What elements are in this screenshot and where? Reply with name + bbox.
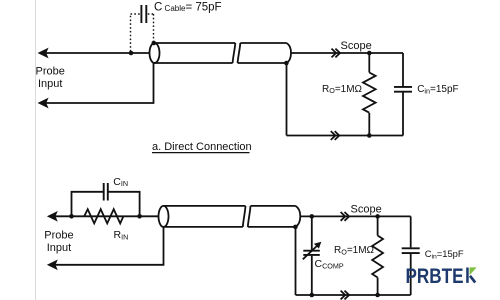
node: dot at cable shield top (C_Cable connection): [152, 41, 157, 46]
capacitor C_in (top circuit): [394, 53, 412, 136]
svg-text:Input: Input: [38, 78, 62, 90]
wire: C_IN branch (left riser, top run, right riser): [72, 192, 140, 217]
svg-text:Probe: Probe: [36, 66, 65, 78]
caption: a. Direct Connection: [152, 141, 252, 153]
wire: dotted lead from C_Cable down to cable shield: [148, 14, 154, 41]
arrowhead of C_COMP adjustment arrow: [314, 242, 321, 249]
variable capacitor C_COMP: [303, 216, 320, 295]
node: dot at R_O bottom (circuit 1): [367, 133, 372, 138]
node: dot at C_COMP top: [310, 214, 315, 219]
node: dot at R_O bottom (circuit 2): [375, 293, 380, 298]
svg-text:PRBTE: PRBTE: [406, 265, 464, 288]
PRBTEK logo: [406, 265, 477, 288]
node: dot at R_O top (circuit 2): [375, 214, 380, 219]
svg-text:a. Direct Connection: a. Direct Connection: [152, 141, 252, 153]
wire: probe return (top circuit) with arrow: [39, 63, 154, 108]
node: dot at cable 2 shield bottom right: [293, 225, 298, 230]
svg-text:Probe: Probe: [44, 229, 73, 241]
wire: scope bottom wire (bottom circuit): [296, 294, 411, 296]
capacitor C_in (bottom circuit): [402, 216, 420, 295]
resistor R_IN: [84, 209, 123, 223]
resistor R_O (bottom circuit): [372, 216, 383, 295]
wire: probe return (bottom circuit) with arrow: [48, 227, 164, 269]
probe input arrow (top circuit, center conductor): [39, 49, 150, 58]
node: dot at cable 1 shield bottom right: [284, 61, 289, 66]
svg-text:Input: Input: [47, 242, 71, 254]
wire: cable 1 shield down to scope ground: [286, 63, 288, 136]
label: Probe Input (top circuit): [36, 66, 65, 91]
figure left border line: [35, 0, 37, 300]
svg-text:Scope: Scope: [341, 40, 372, 52]
node: junction dot on probe wire: [129, 51, 134, 56]
wire: cable 2 shield down to scope ground: [295, 227, 297, 295]
node: dot at R_IN left: [69, 214, 74, 219]
chevron signal marker (top wire, circuit 1): [332, 49, 341, 58]
label: Probe Input (bottom circuit): [44, 229, 73, 254]
node: dot at R_IN right: [137, 214, 142, 219]
capacitor C_Cable: [141, 5, 146, 23]
coax cable 2 (bottom circuit): [159, 206, 301, 227]
svg-text:RO=1MΩ: RO=1MΩ: [334, 245, 375, 256]
probe input arrow (bottom circuit): [48, 212, 159, 221]
svg-text:C Cable= 75pF: C Cable= 75pF: [154, 2, 222, 14]
resistor R_O (top circuit): [363, 53, 376, 136]
node: dot at R_O top (circuit 1): [367, 51, 372, 56]
node: dot at C_COMP bottom: [310, 293, 315, 298]
wire: scope bottom wire (top circuit): [287, 135, 404, 137]
chevron signal marker (bottom wire, circuit 1): [331, 131, 340, 140]
svg-text:Cin=15pF: Cin=15pF: [425, 248, 464, 260]
wire: scope top wire (bottom circuit): [300, 215, 410, 217]
wire: scope top wire (top circuit): [291, 52, 403, 54]
capacitor C_IN: [104, 183, 108, 201]
svg-text:RO=1MΩ: RO=1MΩ: [322, 84, 363, 95]
chevron signal marker (bottom wire, circuit 2): [341, 291, 350, 300]
wire: dotted lead from junction up to C_Cable: [131, 14, 140, 52]
svg-text:Scope: Scope: [351, 204, 382, 216]
svg-text:Cin=15pF: Cin=15pF: [417, 84, 458, 95]
coax cable 1 (top circuit): [150, 43, 292, 63]
chevron signal marker (top wire, circuit 2): [341, 212, 350, 221]
